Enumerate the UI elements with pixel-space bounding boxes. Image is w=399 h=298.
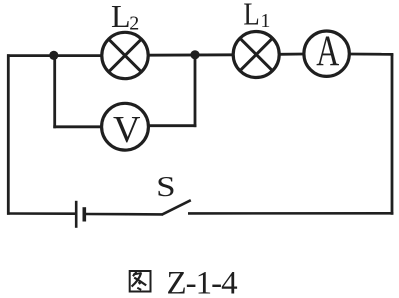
wire: voltmeter branch, left horizontal into V xyxy=(53,125,101,128)
lamp L2 xyxy=(102,32,148,78)
wire: bottom right horizontal (right edge to switch) xyxy=(188,212,393,215)
wire: right edge vertical xyxy=(391,54,394,214)
label L2 xyxy=(111,0,139,35)
battery B1: long plate xyxy=(75,201,78,228)
node: junction dot right (top wire / voltmeter branch) xyxy=(190,50,199,59)
wire: voltmeter branch, left vertical drop xyxy=(53,55,56,128)
voltmeter V (U2) xyxy=(102,103,149,151)
wire: top-left horizontal from left edge to lamp L2 xyxy=(7,54,103,57)
wire: ammeter to right edge xyxy=(349,53,393,56)
svg-text:S: S xyxy=(156,172,176,203)
wire: left edge vertical xyxy=(7,54,10,215)
wire: between lamp L1 and ammeter xyxy=(279,53,304,56)
svg-text:1: 1 xyxy=(260,10,270,32)
label L1 xyxy=(243,0,270,32)
svg-text:L: L xyxy=(111,0,131,34)
ammeter A (U1) xyxy=(304,28,349,76)
svg-text:L: L xyxy=(243,0,259,31)
lamp L1 xyxy=(233,32,279,78)
wire: bottom-left horizontal (left edge to battery) xyxy=(7,212,75,215)
wire: between lamp L2 and lamp L1 xyxy=(148,53,233,56)
node: junction dot left (top wire / voltmeter branch) xyxy=(49,51,58,60)
svg-text:A: A xyxy=(316,28,339,75)
wire: voltmeter branch, right vertical rise xyxy=(194,55,197,127)
caption: hanzi "图" drawn as strokes xyxy=(130,271,151,292)
wire: battery to switch xyxy=(85,213,162,216)
svg-text:Z-1-4: Z-1-4 xyxy=(167,266,238,298)
wire: voltmeter branch, right horizontal out of V xyxy=(148,124,196,127)
svg-text:V: V xyxy=(113,109,141,151)
svg-text:2: 2 xyxy=(129,13,139,35)
battery B1: short plate xyxy=(83,207,87,221)
switch S: lever blade xyxy=(162,200,191,215)
